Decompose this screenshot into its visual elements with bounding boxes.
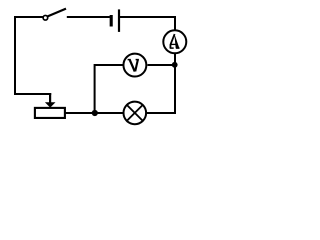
junction left of lamp: [92, 110, 98, 116]
battery negative plate (short thick): [110, 15, 113, 27]
wire lamp to left junction: [95, 112, 125, 114]
rheostat slider arrow: [45, 93, 56, 108]
wire left vertical: [14, 16, 16, 95]
wire top-left horizontal: [15, 16, 43, 18]
wire battery to top-right corner and down: [120, 16, 175, 30]
switch pivot circle: [43, 15, 48, 20]
wire ammeter down right side: [174, 53, 176, 114]
rheostat body: [35, 108, 65, 118]
wire bottom-left horizontal: [14, 93, 51, 95]
wire bottom-right horizontal: [146, 112, 177, 114]
wire rheostat to junction: [65, 112, 94, 114]
wire switch right contact: [67, 16, 110, 18]
wire voltmeter branch vertical and top corner: [95, 64, 124, 113]
battery positive plate (long thin): [118, 9, 120, 32]
wire voltmeter to junction: [148, 64, 175, 66]
ammeter A: [163, 30, 186, 53]
junction below ammeter: [172, 62, 178, 68]
voltmeter V: [123, 54, 146, 77]
lamp: [124, 102, 147, 125]
switch blade: [48, 9, 66, 17]
